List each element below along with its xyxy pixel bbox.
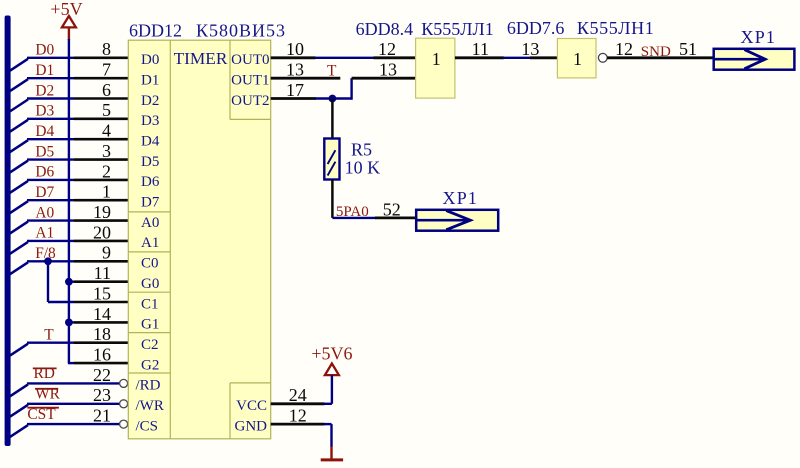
wire gate to inverter: [503, 57, 531, 59]
wire D6 from bus: [9, 180, 74, 194]
timer IC U6 6DD12 К580ВИ53 body: [128, 40, 270, 439]
wire D0 from bus: [9, 58, 74, 72]
svg-text:+5V: +5V: [50, 0, 82, 19]
svg-text:6DD12: 6DD12: [129, 20, 182, 40]
wire D7 from bus: [9, 200, 74, 214]
power +5V6 symbol: [311, 343, 352, 375]
pin 14 (G1): [74, 304, 128, 324]
pin 21 (/CS) inversion bubble: [93, 406, 128, 429]
net label D3: [35, 103, 54, 120]
net label A1: [35, 225, 54, 242]
net label RD (active low): [33, 365, 57, 382]
wire F/8 branch down to C1: [48, 261, 74, 302]
svg-text:D3: D3: [35, 103, 54, 120]
label 6DD7.6: [507, 18, 565, 38]
wire D3 from bus: [9, 119, 74, 133]
pin 12 (GND): [271, 406, 325, 426]
svg-text:D5: D5: [35, 143, 54, 160]
svg-text:SND: SND: [641, 44, 671, 60]
label R5: [351, 140, 372, 160]
svg-text:D7: D7: [35, 184, 54, 201]
net label A0: [35, 204, 54, 221]
label К555ЛЛ1: [421, 19, 493, 39]
wire GND down: [324, 424, 332, 447]
svg-text:D1: D1: [141, 73, 159, 89]
IC left pin names: [136, 52, 164, 434]
net label D4: [35, 123, 54, 140]
svg-text:6: 6: [102, 80, 111, 100]
pin 13 (gate input lower): [352, 60, 416, 80]
svg-text:К555ЛН1: К555ЛН1: [577, 18, 654, 38]
net label D1: [35, 62, 54, 79]
junction F/8 branch: [44, 257, 52, 265]
svg-text:/RD: /RD: [136, 378, 161, 394]
svg-text:D1: D1: [35, 62, 54, 79]
junction on +5V line at G1: [65, 319, 73, 327]
label TIMER: [174, 49, 228, 68]
svg-text:13: 13: [521, 39, 539, 59]
junction OUT2 / R5: [329, 95, 337, 103]
svg-text:12: 12: [289, 406, 307, 426]
net label WR (active low): [35, 385, 61, 402]
svg-text:C1: C1: [141, 296, 159, 312]
svg-text:11: 11: [94, 263, 111, 283]
svg-text:23: 23: [93, 385, 111, 405]
wire D5 from bus: [9, 160, 74, 174]
svg-text:24: 24: [289, 385, 307, 405]
pin 17 (OUT2): [271, 80, 316, 100]
junction on +5V line at G0: [65, 278, 73, 286]
pin 1 (D7): [74, 182, 128, 202]
svg-text:D5: D5: [141, 154, 159, 170]
svg-text:CST: CST: [27, 406, 56, 423]
svg-text:D0: D0: [35, 42, 54, 59]
svg-text:OUT1: OUT1: [231, 73, 269, 89]
net label SND: [641, 44, 671, 60]
svg-text:12: 12: [615, 39, 633, 59]
wire R5 down to XP1: [332, 180, 376, 218]
svg-text:19: 19: [93, 202, 111, 222]
svg-text:14: 14: [93, 304, 111, 324]
ground symbol: [321, 446, 343, 460]
wire OUT2 down to R5: [331, 99, 334, 139]
svg-text:2: 2: [102, 161, 111, 181]
svg-text:8: 8: [102, 39, 111, 59]
svg-text:D4: D4: [35, 123, 54, 140]
pin 52 label: [375, 199, 416, 219]
label 10 K: [345, 157, 381, 177]
wire +5V to G0: [68, 281, 74, 283]
svg-text:20: 20: [93, 222, 111, 242]
inverter 6DD7.6 К555ЛН1: [557, 39, 596, 78]
svg-text:D2: D2: [35, 82, 54, 99]
svg-text:/WR: /WR: [136, 398, 164, 414]
label 6DD12: [129, 20, 182, 40]
svg-text:17: 17: [286, 80, 304, 100]
svg-text:VCC: VCC: [236, 398, 267, 414]
svg-text:10: 10: [286, 39, 304, 59]
svg-text:RD: RD: [34, 365, 55, 382]
wire +5V to G1: [68, 321, 74, 323]
svg-text:C2: C2: [141, 337, 159, 353]
net label 5PA0: [336, 204, 369, 220]
svg-text:21: 21: [93, 406, 111, 426]
wire OUT0 to gate: [315, 57, 375, 59]
svg-text:18: 18: [93, 324, 111, 344]
pin 15 (C1): [74, 283, 128, 303]
svg-text:51: 51: [679, 39, 697, 59]
pin 8 (D0): [74, 39, 128, 59]
power +5V symbol: [50, 0, 82, 40]
svg-text:9: 9: [102, 243, 111, 263]
pin 51 label: [679, 39, 697, 59]
pin 6 (D2): [74, 80, 128, 100]
pin 18 (C2): [74, 324, 128, 344]
pin 11 (gate output): [455, 39, 504, 59]
resistor R5 10 K: [324, 139, 339, 180]
svg-text:T: T: [327, 63, 337, 80]
net label D5: [35, 143, 54, 160]
svg-text:4: 4: [102, 121, 111, 141]
svg-text:22: 22: [93, 365, 111, 385]
svg-text:16: 16: [93, 345, 111, 365]
svg-text:6DD7.6: 6DD7.6: [507, 18, 565, 38]
svg-text:3: 3: [102, 141, 111, 161]
pin 5 (D3): [74, 100, 128, 120]
net label D0: [35, 42, 54, 59]
pin 10 (OUT0): [271, 39, 316, 59]
wire D2 from bus: [9, 99, 74, 113]
net label D6: [35, 164, 54, 181]
svg-text:5PA0: 5PA0: [336, 204, 369, 220]
pin 24 (VCC): [271, 385, 325, 405]
svg-text:6DD8.4: 6DD8.4: [356, 19, 414, 39]
label XP1 (top): [741, 27, 777, 47]
svg-text:12: 12: [378, 39, 396, 59]
svg-text:D2: D2: [141, 93, 159, 109]
svg-text:К555ЛЛ1: К555ЛЛ1: [421, 19, 493, 39]
svg-text:15: 15: [93, 283, 111, 303]
svg-text:OUT0: OUT0: [231, 52, 269, 68]
bus (data/control bus): [5, 16, 11, 447]
svg-text:WR: WR: [35, 385, 61, 402]
wire OUT2 to gate pin 13: [315, 78, 352, 100]
svg-text:G0: G0: [141, 276, 159, 292]
pin 13 (inverter input): [521, 39, 557, 59]
connector XP1 pin 52: [416, 210, 498, 231]
pin 22 (/RD) inversion bubble: [93, 365, 128, 388]
svg-text:D4: D4: [141, 134, 160, 150]
label К555ЛН1: [577, 18, 654, 38]
svg-text:G1: G1: [141, 317, 159, 333]
wire A0 from bus: [9, 221, 74, 235]
svg-text:10 K: 10 K: [345, 157, 381, 177]
pin 12 (gate input): [374, 39, 416, 59]
svg-text:11: 11: [472, 39, 489, 59]
pin 9 (C0): [74, 243, 128, 263]
wire D4 from bus: [9, 139, 74, 153]
inverter output bubble: [598, 53, 607, 62]
svg-text:G2: G2: [141, 357, 159, 373]
svg-text:D0: D0: [141, 52, 159, 68]
svg-text:D3: D3: [141, 113, 159, 129]
svg-text:1: 1: [432, 49, 441, 69]
wire +5V corner to G2: [68, 362, 74, 364]
svg-text:+5V6: +5V6: [311, 343, 352, 363]
svg-text:OUT2: OUT2: [231, 93, 269, 109]
pin 4 (D4): [74, 121, 128, 141]
wire F/8 from bus to C0: [9, 261, 74, 275]
pin 2 (D6): [74, 161, 128, 181]
wire D1 from bus: [9, 78, 74, 92]
wire WR from bus: [9, 404, 120, 418]
svg-text:/CS: /CS: [136, 418, 159, 434]
net label T (OUT1): [327, 63, 337, 80]
pin 20 (A1): [74, 222, 128, 242]
label XP1 (middle): [443, 188, 479, 208]
svg-text:7: 7: [102, 60, 111, 80]
wire T from bus to C2: [9, 343, 74, 357]
svg-text:XP1: XP1: [741, 27, 777, 47]
pin 23 (/WR) inversion bubble: [93, 385, 128, 408]
svg-text:C0: C0: [141, 256, 159, 272]
svg-text:T: T: [44, 327, 54, 344]
svg-text:5: 5: [102, 100, 111, 120]
net label D7: [35, 184, 54, 201]
net label D2: [35, 82, 54, 99]
wire +5V vertical to G0/G1/G2: [68, 39, 70, 363]
pin 19 (A0): [74, 202, 128, 222]
wire RD from bus: [9, 383, 120, 397]
svg-text:A0: A0: [141, 215, 159, 231]
pin 12 (inverter output): [607, 39, 714, 59]
net label T (left): [44, 327, 54, 344]
svg-text:TIMER: TIMER: [174, 49, 228, 68]
wire CST from bus: [9, 424, 120, 438]
pin 7 (D1): [74, 60, 128, 80]
svg-text:XP1: XP1: [443, 188, 479, 208]
svg-text:GND: GND: [235, 418, 268, 434]
svg-text:52: 52: [383, 199, 401, 219]
connector XP1 pin 51: [714, 49, 795, 70]
pin 3 (D5): [74, 141, 128, 161]
svg-text:A1: A1: [35, 225, 54, 242]
wire +5V6 to VCC: [324, 375, 332, 404]
label 6DD8.4: [356, 19, 414, 39]
svg-text:1: 1: [573, 49, 582, 69]
svg-text:A1: A1: [141, 235, 159, 251]
label К580ВИ53: [196, 20, 286, 40]
OR gate 6DD8.4 К555ЛЛ1: [416, 38, 455, 98]
net label F/8: [35, 245, 56, 262]
svg-text:D6: D6: [141, 174, 160, 190]
wire A1 from bus: [9, 241, 74, 255]
svg-text:A0: A0: [35, 204, 54, 221]
svg-text:13: 13: [379, 60, 397, 80]
svg-text:1: 1: [102, 182, 111, 202]
pin 13 (OUT1): [271, 60, 341, 80]
pin 16 (G2): [74, 345, 128, 365]
svg-text:К580ВИ53: К580ВИ53: [196, 20, 286, 40]
net label CST (active low): [27, 406, 59, 423]
svg-text:13: 13: [286, 60, 304, 80]
svg-text:D6: D6: [35, 164, 54, 181]
pin 11 (G0): [74, 263, 128, 283]
svg-text:D7: D7: [141, 195, 160, 211]
IC right pin names: [231, 52, 269, 434]
